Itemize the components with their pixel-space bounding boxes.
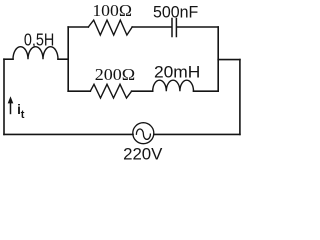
capacitor C1 right plate xyxy=(175,19,177,37)
wire bottom rail left segment xyxy=(4,133,133,135)
wire middle branch left segment xyxy=(68,90,90,92)
wire bottom rail right segment xyxy=(154,133,240,135)
wire inductor L1 right lead xyxy=(58,58,68,60)
svg-text:t: t xyxy=(21,109,25,121)
wire inductor L1 left lead xyxy=(4,58,13,60)
wire top branch middle segment xyxy=(132,26,171,28)
current arrow it xyxy=(8,96,14,114)
svg-text:20mH: 20mH xyxy=(154,62,200,82)
inductor L2 20mH xyxy=(153,80,194,91)
svg-text:0,5H: 0,5H xyxy=(24,30,54,50)
svg-text:220V: 220V xyxy=(123,145,163,163)
resistor R2 200ohm xyxy=(90,84,131,98)
wire top branch left segment xyxy=(68,26,88,28)
wire top branch right segment xyxy=(177,26,218,28)
wire parallel-section right vertical xyxy=(217,27,219,91)
svg-text:200Ω: 200Ω xyxy=(95,65,135,84)
capacitor C1 left plate xyxy=(171,19,173,37)
inductor L1 0,5H xyxy=(13,47,58,60)
wire right rail xyxy=(239,60,241,135)
wire middle branch right segment xyxy=(194,90,219,92)
wire parallel-section left vertical xyxy=(67,27,69,91)
wire middle branch middle segment xyxy=(132,90,153,92)
resistor R1 100ohm xyxy=(88,20,132,35)
ac source V1 circle xyxy=(133,123,154,144)
ac source V1 sine xyxy=(136,129,150,139)
wire left rail xyxy=(3,59,5,134)
svg-text:500nF: 500nF xyxy=(153,3,198,21)
wire output tap xyxy=(218,59,240,61)
svg-text:100Ω: 100Ω xyxy=(92,1,132,20)
